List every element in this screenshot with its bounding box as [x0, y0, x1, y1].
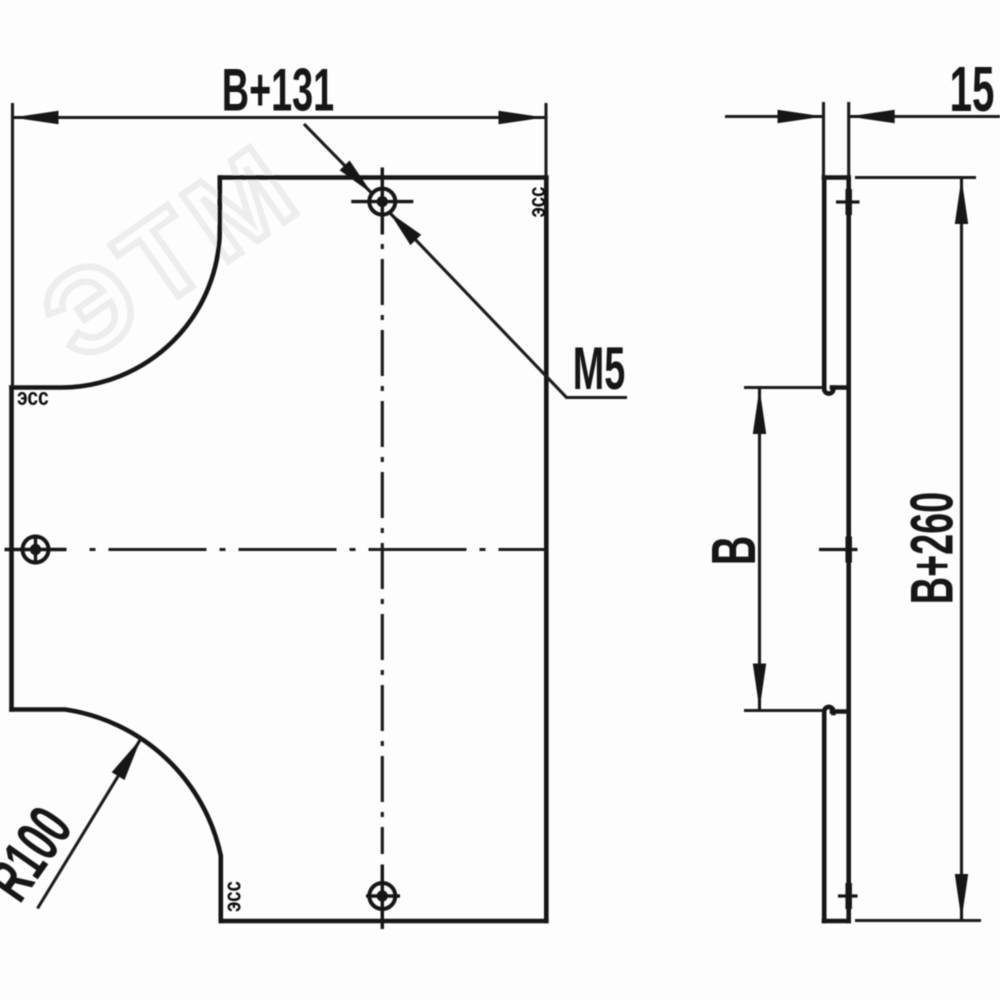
svg-text:15: 15 [950, 55, 995, 126]
svg-text:B: B [700, 536, 770, 566]
svg-text:эсс: эсс [524, 187, 551, 218]
svg-text:R100: R100 [0, 795, 86, 913]
svg-text:эсс: эсс [17, 383, 49, 411]
svg-text:M5: M5 [573, 335, 625, 402]
svg-text:эсс: эсс [219, 881, 246, 912]
svg-text:B+131: B+131 [222, 57, 334, 124]
svg-text:B+260: B+260 [899, 492, 966, 604]
svg-text:ЭТМ: ЭТМ [19, 117, 325, 386]
